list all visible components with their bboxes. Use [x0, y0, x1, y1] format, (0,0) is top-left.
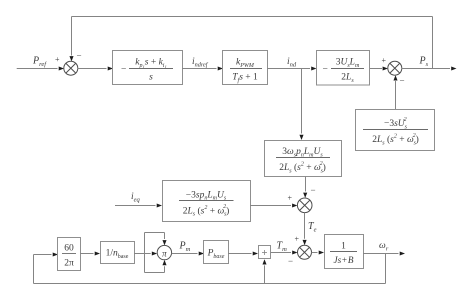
wire: branch vertical for pi inputs: [144, 233, 146, 273]
wire: B9 to divider box: [228, 251, 258, 255]
svg-text:−: −: [400, 76, 405, 86]
label Te: [308, 221, 317, 233]
wire: B1 to block B2 with label indref: [182, 66, 223, 70]
svg-text:π: π: [162, 248, 167, 258]
wire: bottom feedback horizontal: [34, 283, 386, 285]
wire: branch bottom into pi: [145, 260, 167, 273]
block B3 gain -3UsLm/2Ls: [317, 51, 370, 86]
wire: B5 output down into summing junction S3a: [303, 177, 307, 198]
svg-text:1: 1: [341, 242, 346, 252]
label ieq: [131, 192, 141, 203]
label Tm: [277, 241, 288, 253]
multiplier pi circle: [157, 245, 171, 259]
label indref: [192, 57, 209, 68]
svg-text:−: −: [288, 256, 293, 266]
wire: B7 to B8: [80, 251, 100, 255]
wire: B6 output to summing junction S3a: [250, 203, 297, 207]
wire: S1 to block B1: [78, 66, 113, 70]
svg-text:2π: 2π: [64, 259, 74, 269]
block B9 Pbase: [204, 241, 229, 264]
svg-text:s: s: [149, 73, 153, 83]
svg-text:+: +: [55, 55, 60, 64]
node Pref input wire: [17, 66, 64, 70]
svg-text:+: +: [382, 56, 387, 65]
summing junction S2: [388, 61, 402, 75]
block B5 3ws pn Lm Us/(2Ls(s^2+ws^2)): [265, 141, 342, 177]
block B4 -3sUs^2/(2Ls(s^2+ws^2)): [356, 110, 435, 151]
wire: bottom feedback up into divider box: [262, 259, 266, 283]
label Pm: [179, 241, 191, 253]
summing junction S3a (Te): [297, 198, 312, 213]
wire: top feedback right vertical from Ps output branch: [432, 17, 434, 69]
wire: feedback into block B7: [34, 252, 59, 256]
svg-text:60: 60: [64, 244, 74, 254]
wire: pi to block B9 with label Pm: [172, 251, 204, 255]
wire: branch top into pi: [145, 233, 167, 246]
block B10 1/(Js+B): [325, 235, 364, 269]
block B8 1/nbase: [101, 242, 135, 264]
wire: ind branch down into block B5: [299, 69, 303, 141]
wire: B3 to summing junction S2: [370, 66, 388, 70]
wire: top feedback left vertical into summing junction S1: [69, 17, 73, 62]
block B2 PWM converter kPWM/(Tf s+1): [223, 51, 268, 85]
wire: S3a output down to S3 with label Te: [303, 213, 307, 246]
label Ps: [419, 56, 429, 68]
wire: divider box to S3 with label Tm: [271, 250, 298, 254]
block B1 PI controller -(kp1 s + ki1)/s: [113, 51, 183, 85]
wire: B8 to pi multiplier: [134, 251, 157, 255]
svg-text:Tfs + 1: Tfs + 1: [232, 73, 258, 84]
summing junction S3 (mech): [298, 245, 312, 259]
divider box B11: [259, 246, 271, 259]
label Pref: [32, 56, 47, 68]
label ind: [287, 57, 297, 68]
svg-text:−: −: [323, 65, 328, 75]
wire: top feedback horizontal from Ps branch: [72, 16, 433, 18]
svg-text:+: +: [288, 194, 293, 203]
summing junction S1: [64, 61, 78, 75]
wire: S3 to block B10: [312, 250, 325, 254]
svg-text:−: −: [121, 65, 126, 75]
wire: omega branch down: [385, 254, 387, 284]
wire: B10 output to right with label wr: [363, 251, 405, 255]
wire: S2 output to right edge with Ps branch: [402, 66, 457, 70]
wire: B2 to block B3 with label ind: [267, 66, 317, 70]
block B6 -3spnLmUs/(2Ls(s^2+ws^2)): [163, 181, 251, 222]
wire: bottom feedback left vertical: [33, 255, 35, 284]
svg-text:−3sUs2: −3sUs2: [384, 117, 408, 130]
svg-text:−: −: [77, 51, 82, 61]
wire: ieq input into block B6: [115, 203, 162, 207]
label wr: [379, 241, 389, 252]
svg-text:−: −: [311, 185, 316, 195]
wire: block B4 output up into S2 bottom: [393, 75, 397, 109]
svg-text:Js + B: Js + B: [334, 255, 354, 265]
svg-text:+: +: [295, 235, 300, 244]
block B7 60/2pi: [58, 238, 81, 271]
